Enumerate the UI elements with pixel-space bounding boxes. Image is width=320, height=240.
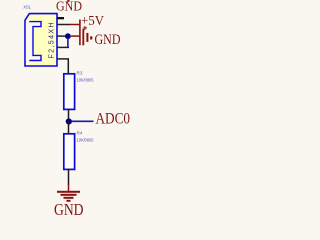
- ground bar 4: [67, 200, 71, 202]
- sheet background: [0, 0, 135, 216]
- svg-text:F2,54XH: F2,54XH: [49, 22, 56, 58]
- resistor R3: [64, 74, 75, 110]
- svg-text:GND: GND: [56, 0, 82, 14]
- pin 1: [58, 24, 71, 26]
- svg-text:R3: R3: [77, 71, 83, 76]
- svg-text:GND: GND: [95, 32, 121, 48]
- +5V power port stem: [79, 20, 81, 46]
- wire pin4 down to R3: [67, 59, 69, 74]
- wire pin1 to +5V stem: [70, 24, 80, 26]
- junction node ADC0: [66, 118, 72, 124]
- pin 3: [58, 46, 70, 48]
- top edge wire stub: [67, 0, 69, 2]
- capacitor polarity +: [83, 26, 87, 30]
- svg-text:10K/0805: 10K/0805: [77, 77, 95, 82]
- ground bar 1: [57, 191, 80, 193]
- wire node to ADC0 label: [72, 120, 94, 122]
- wire pin2 to capacitor: [71, 35, 80, 37]
- svg-text:GND: GND: [54, 200, 84, 216]
- pin 4: [58, 58, 70, 60]
- junction node pin2: [65, 33, 71, 39]
- wire R3 to node ADC0: [68, 110, 70, 122]
- wire node down to R4: [68, 121, 70, 134]
- ground bar 2: [61, 194, 77, 196]
- ground bar 3: [64, 197, 74, 199]
- wire junction down to pin 3: [67, 38, 69, 47]
- svg-text:ADC0: ADC0: [96, 111, 131, 128]
- svg-text:10K/0805: 10K/0805: [77, 137, 95, 142]
- pin 2: [58, 35, 66, 37]
- resistor R4: [64, 134, 75, 170]
- GND port bar: [58, 17, 65, 19]
- capacitor C1 plate left: [82, 29, 84, 45]
- svg-text:XS1: XS1: [23, 5, 31, 10]
- ground stem: [68, 184, 70, 192]
- GND port circle (right of cap): [90, 36, 92, 39]
- capacitor C1 plate right: [86, 33, 88, 42]
- svg-text:R4: R4: [77, 131, 83, 136]
- connector XS1 (F2,54XH socket) body: [25, 14, 57, 66]
- wire R4 down to ground: [68, 170, 70, 186]
